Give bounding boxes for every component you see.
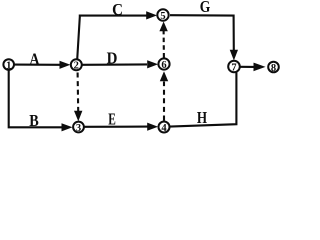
svg-text:2: 2	[74, 61, 79, 72]
svg-text:D: D	[107, 49, 118, 68]
svg-text:C: C	[112, 0, 123, 19]
svg-text:G: G	[200, 0, 211, 16]
svg-text:7: 7	[231, 62, 236, 73]
svg-text:1: 1	[6, 60, 11, 71]
svg-text:4: 4	[161, 123, 167, 134]
svg-text:6: 6	[161, 60, 166, 71]
svg-text:8: 8	[271, 63, 276, 74]
svg-text:3: 3	[76, 123, 81, 134]
svg-text:H: H	[197, 108, 207, 127]
svg-text:B: B	[29, 111, 39, 130]
svg-text:E: E	[108, 110, 116, 129]
svg-text:A: A	[29, 50, 40, 69]
svg-text:5: 5	[160, 11, 165, 22]
